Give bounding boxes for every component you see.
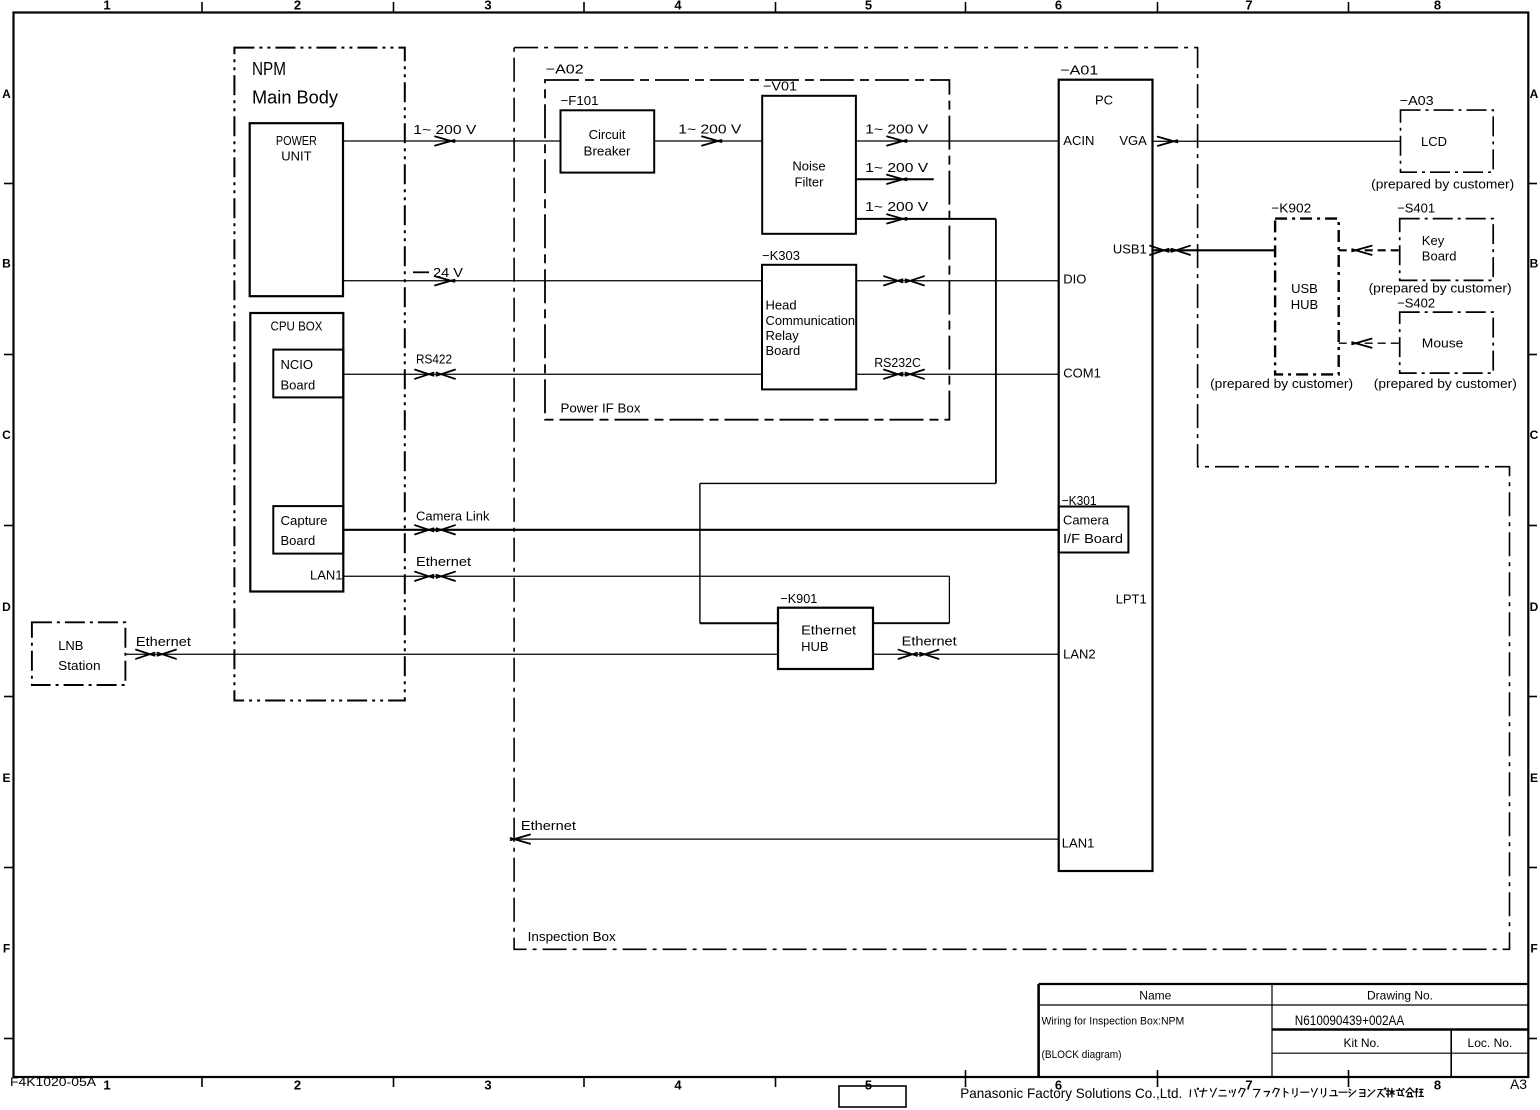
svg-text:Head: Head — [766, 297, 797, 312]
svg-text:−S401: −S401 — [1397, 201, 1435, 216]
svg-text:LPT1: LPT1 — [1116, 592, 1147, 607]
svg-text:1~ 200 V: 1~ 200 V — [865, 121, 928, 136]
svg-text:1~ 200 V: 1~ 200 V — [678, 122, 741, 137]
svg-text:D: D — [2, 600, 11, 614]
svg-text:Ethernet: Ethernet — [416, 554, 471, 569]
svg-text:1~ 200 V: 1~ 200 V — [413, 122, 476, 137]
svg-text:C: C — [1530, 428, 1539, 442]
svg-text:3: 3 — [484, 0, 491, 13]
svg-text:3: 3 — [484, 1078, 491, 1093]
svg-text:8: 8 — [1434, 1078, 1441, 1093]
svg-text:C: C — [2, 428, 11, 442]
svg-text:LAN1: LAN1 — [310, 568, 343, 583]
svg-text:F: F — [3, 942, 10, 956]
svg-text:POWER: POWER — [276, 133, 317, 148]
svg-text:Main Body: Main Body — [252, 88, 338, 108]
svg-text:LAN2: LAN2 — [1063, 647, 1096, 662]
svg-text:HUB: HUB — [801, 639, 828, 654]
svg-text:−K901: −K901 — [780, 591, 817, 606]
svg-text:RS422: RS422 — [416, 352, 452, 367]
svg-text:(prepared by customer): (prepared by customer) — [1371, 176, 1514, 191]
svg-text:Name: Name — [1139, 988, 1171, 1002]
svg-text:1~ 200 V: 1~ 200 V — [865, 199, 928, 214]
svg-text:LAN1: LAN1 — [1062, 836, 1095, 851]
svg-text:Board: Board — [1422, 249, 1457, 264]
svg-text:Panasonic Factory Solutions Co: Panasonic Factory Solutions Co.,Ltd. — [960, 1085, 1182, 1101]
svg-text:1~ 200 V: 1~ 200 V — [865, 160, 928, 175]
svg-text:−A03: −A03 — [1400, 93, 1434, 108]
svg-text:Ethernet: Ethernet — [136, 634, 191, 649]
svg-text:Key: Key — [1422, 233, 1445, 248]
svg-text:Loc. No.: Loc. No. — [1468, 1036, 1513, 1050]
svg-text:(BLOCK diagram): (BLOCK diagram) — [1042, 1049, 1122, 1061]
svg-text:F: F — [1530, 942, 1537, 956]
svg-text:−S402: −S402 — [1397, 296, 1435, 311]
svg-text:A: A — [2, 87, 11, 101]
svg-text:1: 1 — [103, 0, 110, 13]
svg-text:NCIO: NCIO — [281, 357, 314, 372]
svg-text:1: 1 — [103, 1078, 110, 1093]
svg-text:E: E — [1530, 771, 1538, 785]
svg-text:5: 5 — [865, 1078, 872, 1093]
svg-text:ACIN: ACIN — [1063, 133, 1094, 148]
svg-text:−K902: −K902 — [1271, 201, 1311, 216]
svg-text:D: D — [1530, 600, 1539, 614]
svg-text:(prepared by customer): (prepared by customer) — [1369, 281, 1512, 296]
svg-text:−F101: −F101 — [561, 93, 599, 108]
svg-text:8: 8 — [1434, 0, 1441, 13]
svg-text:Communication: Communication — [766, 313, 856, 328]
svg-text:Capture: Capture — [281, 513, 328, 528]
svg-text:E: E — [2, 771, 10, 785]
svg-text:RS232C: RS232C — [874, 355, 921, 370]
svg-text:A: A — [1530, 87, 1539, 101]
svg-text:2: 2 — [294, 1078, 301, 1093]
svg-text:Relay: Relay — [766, 328, 800, 343]
svg-text:NPM: NPM — [252, 59, 286, 79]
svg-text:COM1: COM1 — [1063, 365, 1101, 380]
svg-text:Circuit: Circuit — [589, 127, 626, 142]
svg-text:I/F Board: I/F Board — [1063, 531, 1123, 546]
svg-text:LNB: LNB — [58, 638, 83, 653]
svg-text:(prepared by customer): (prepared by customer) — [1210, 376, 1353, 391]
svg-text:Camera Link: Camera Link — [416, 509, 490, 524]
svg-text:Board: Board — [281, 377, 316, 392]
svg-text:LCD: LCD — [1421, 134, 1447, 149]
svg-text:Board: Board — [281, 533, 316, 548]
svg-text:Kit No.: Kit No. — [1343, 1036, 1379, 1050]
svg-text:Camera: Camera — [1063, 513, 1110, 528]
svg-text:Inspection Box: Inspection Box — [528, 929, 617, 944]
svg-text:HUB: HUB — [1291, 297, 1318, 312]
svg-text:B: B — [1530, 257, 1539, 271]
svg-text:USB: USB — [1291, 281, 1318, 296]
svg-text:Noise: Noise — [792, 159, 825, 174]
svg-text:F4K1020-05A: F4K1020-05A — [10, 1075, 96, 1089]
svg-text:5: 5 — [865, 0, 872, 13]
svg-text:−K301: −K301 — [1062, 493, 1097, 508]
svg-text:Filter: Filter — [795, 175, 825, 190]
svg-text:Wiring for Inspection Box:NPM: Wiring for Inspection Box:NPM — [1042, 1015, 1185, 1027]
svg-text:CPU BOX: CPU BOX — [271, 318, 323, 333]
svg-text:2: 2 — [294, 0, 301, 13]
svg-text:Power IF Box: Power IF Box — [561, 401, 642, 416]
svg-text:B: B — [2, 257, 11, 271]
svg-text:Ethernet: Ethernet — [521, 818, 576, 833]
svg-text:−K303: −K303 — [762, 248, 800, 263]
svg-text:VGA: VGA — [1119, 133, 1147, 148]
svg-text:−A01: −A01 — [1060, 62, 1098, 77]
svg-text:Mouse: Mouse — [1422, 336, 1464, 351]
svg-text:7: 7 — [1245, 0, 1252, 13]
svg-text:Ethernet: Ethernet — [902, 634, 957, 649]
svg-text:USB1: USB1 — [1113, 241, 1147, 256]
svg-text:Ethernet: Ethernet — [801, 622, 856, 637]
svg-text:N610090439+002AA: N610090439+002AA — [1295, 1013, 1405, 1028]
svg-text:−A02: −A02 — [546, 62, 584, 77]
svg-text:Station: Station — [58, 658, 100, 673]
svg-text:(prepared by customer): (prepared by customer) — [1374, 376, 1517, 391]
svg-text:A3: A3 — [1510, 1076, 1527, 1092]
svg-text:6: 6 — [1055, 0, 1062, 13]
svg-text:Drawing No.: Drawing No. — [1367, 988, 1433, 1002]
svg-text:7: 7 — [1245, 1078, 1252, 1093]
svg-text:24 V: 24 V — [433, 265, 463, 280]
svg-text:4: 4 — [674, 0, 682, 13]
svg-text:4: 4 — [674, 1078, 682, 1093]
svg-text:−V01: −V01 — [763, 79, 797, 94]
svg-text:UNIT: UNIT — [281, 149, 311, 164]
svg-text:Breaker: Breaker — [584, 143, 632, 158]
svg-text:Board: Board — [766, 343, 801, 358]
svg-text:PC: PC — [1095, 93, 1113, 108]
svg-text:DIO: DIO — [1063, 272, 1086, 287]
